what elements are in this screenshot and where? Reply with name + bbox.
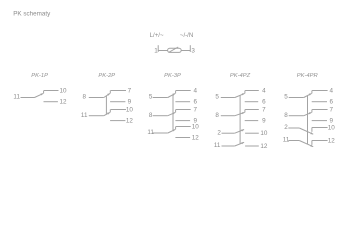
PK-3P pole 2 movable contact arm: [168, 112, 176, 115]
PK-4PZ pole 2 movable contact arm: [235, 112, 245, 115]
PK-4PZ pole 4 fixed contact wire (pin 12): [245, 145, 259, 147]
relay contact diagram PK-4PR: [283, 73, 336, 147]
svg-text:5: 5: [215, 94, 219, 101]
PK-4PZ pole 2 common wire (pin 8): [221, 115, 235, 117]
PK-3P pole 1 contact tick: [175, 91, 177, 94]
PK-3P pole 1 movable contact arm: [168, 93, 176, 97]
PK-2P mechanical link: [105, 96, 107, 115]
coil terminal tick pin 1: [157, 45, 159, 52]
coil section: [150, 32, 196, 54]
PK-1P pole 1 lower contact wire (pin 12): [44, 101, 58, 103]
PK-4PZ pole 2 contact tick: [244, 110, 246, 113]
svg-text:12: 12: [192, 134, 200, 141]
PK-3P mechanical link: [172, 95, 174, 131]
PK-4PR pole 3 movable contact arm (NC): [299, 128, 313, 134]
PK-3P pole 2 upper contact wire (pin 7): [176, 109, 191, 111]
svg-text:3: 3: [191, 47, 195, 54]
svg-text:5: 5: [284, 94, 288, 101]
PK-4PR mechanical link: [307, 96, 309, 145]
PK-4PR pole 3 contact tick: [311, 128, 313, 132]
PK-4PR pole 2 contact tick: [311, 110, 313, 113]
svg-text:8: 8: [284, 112, 288, 119]
coil terminal tick pin 3: [189, 45, 191, 52]
svg-text:10: 10: [192, 123, 200, 130]
PK-4PZ pole 3 fixed contact wire (pin 10): [245, 132, 259, 134]
svg-text:7: 7: [330, 106, 334, 113]
PK-4PZ mechanical link: [239, 95, 241, 144]
svg-text:10: 10: [328, 124, 336, 131]
PK-4PZ pole 3 common wire (pin 2): [222, 132, 235, 134]
svg-text:10: 10: [126, 106, 134, 113]
svg-text:4: 4: [262, 87, 266, 94]
PK-4PZ pole 4 movable contact arm (NO): [235, 142, 244, 146]
svg-text:L/+/~: L/+/~: [150, 32, 164, 39]
PK-4PR pole 4 fixed contact wire (pin 12): [312, 140, 328, 142]
PK-3P pole 3 common wire (pin 11): [153, 132, 168, 134]
svg-text:12: 12: [59, 99, 67, 106]
PK-4PR pole 4 common wire (pin 11): [288, 140, 299, 142]
PK-3P pole 1 common wire (pin 5): [153, 97, 168, 99]
svg-text:2: 2: [284, 124, 288, 131]
PK-2P pole 1 upper contact wire (pin 7): [111, 90, 127, 92]
svg-text:PK-1P: PK-1P: [31, 73, 48, 79]
coil body (oval with diagonal): [168, 48, 182, 52]
svg-text:9: 9: [262, 117, 266, 124]
svg-text:7: 7: [194, 106, 198, 113]
PK-2P pole 1 contact tick: [109, 91, 111, 94]
PK-4PR pole 1 movable contact arm: [304, 93, 312, 97]
PK-4PR pole 2 common wire (pin 8): [289, 115, 304, 117]
PK-4PR pole 1 lower contact wire (pin 6): [312, 101, 327, 103]
svg-text:4: 4: [194, 87, 198, 94]
svg-text:6: 6: [330, 99, 334, 106]
PK-4PR pole 1 common wire (pin 5): [289, 97, 304, 99]
svg-text:4: 4: [330, 87, 334, 94]
PK-2P pole 2 movable contact arm: [104, 112, 110, 115]
PK-2P pole 1 lower contact wire (pin 9): [110, 101, 125, 103]
PK-1P pole 1 common wire (pin 11): [21, 97, 35, 99]
PK-4PZ pole 1 movable contact arm: [235, 93, 245, 97]
PK-3P pole 2 lower contact wire (pin 9): [175, 120, 190, 122]
PK-2P pole 2 common wire (pin 11): [89, 115, 104, 117]
PK-3P pole 3 contact tick: [175, 127, 177, 130]
PK-4PR pole 2 lower contact wire (pin 9): [312, 120, 327, 122]
svg-text:1: 1: [154, 47, 158, 54]
PK-3P pole 2 common wire (pin 8): [153, 115, 168, 117]
coil wire right: [181, 50, 190, 52]
PK-3P pole 3 lower contact wire (pin 12): [175, 137, 190, 139]
PK-4PZ pole 3 movable contact arm (NO): [235, 130, 244, 134]
relay contact diagram PK-4PZ: [214, 73, 268, 150]
PK-3P pole 3 upper contact wire (pin 10): [176, 126, 191, 128]
svg-text:11: 11: [13, 94, 20, 101]
PK-4PZ pole 2 lower contact wire (pin 9): [245, 120, 259, 122]
PK-4PR pole 2 movable contact arm: [304, 112, 312, 115]
PK-4PR pole 1 upper contact wire (pin 4): [312, 90, 328, 92]
PK-4PZ pole 2 upper contact wire (pin 7): [245, 109, 259, 111]
svg-text:2: 2: [217, 129, 221, 136]
svg-text:6: 6: [262, 99, 266, 106]
PK-3P pole 2 contact tick: [175, 110, 177, 113]
svg-text:7: 7: [128, 87, 132, 94]
svg-text:8: 8: [215, 112, 219, 119]
svg-text:9: 9: [128, 99, 132, 106]
svg-text:10: 10: [260, 130, 268, 137]
PK-4PZ pole 1 contact tick: [244, 91, 246, 94]
PK-4PR pole 4 movable contact arm (NC): [299, 141, 313, 147]
PK-3P pole 1 lower contact wire (pin 6): [175, 101, 190, 103]
PK-2P pole 2 upper contact wire (pin 10): [111, 109, 127, 111]
svg-text:12: 12: [328, 137, 336, 144]
PK-2P pole 2 contact tick: [109, 110, 111, 113]
svg-text:12: 12: [126, 117, 134, 124]
PK-4PZ pole 1 common wire (pin 5): [221, 97, 235, 99]
PK-4PZ pole 1 upper contact wire (pin 4): [245, 90, 259, 92]
svg-text:PK-4PR: PK-4PR: [297, 73, 319, 79]
svg-text:PK-2P: PK-2P: [98, 73, 115, 79]
PK-3P pole 1 upper contact wire (pin 4): [176, 90, 191, 92]
svg-text:6: 6: [194, 99, 198, 106]
svg-text:12: 12: [260, 143, 268, 150]
PK-4PZ pole 1 lower contact wire (pin 6): [245, 101, 259, 103]
svg-text:PK schematy: PK schematy: [13, 10, 51, 17]
PK-4PZ pole 4 common wire (pin 11): [222, 145, 235, 147]
PK-3P pole 3 movable contact arm: [168, 129, 176, 133]
PK-2P pole 1 common wire (pin 8): [89, 97, 104, 99]
PK-2P pole 1 movable contact arm: [104, 93, 110, 97]
PK-4PR pole 3 fixed contact wire (pin 10): [312, 127, 328, 129]
svg-text:8: 8: [82, 94, 86, 101]
svg-text:PK-3P: PK-3P: [164, 73, 181, 79]
PK-4PR pole 1 contact tick: [311, 91, 313, 94]
PK-1P pole 1 contact tick: [43, 91, 45, 94]
svg-text:PK-4PZ: PK-4PZ: [230, 73, 251, 79]
svg-text:~/-/N: ~/-/N: [180, 32, 193, 39]
PK-1P pole 1 movable contact arm: [35, 93, 44, 97]
PK-4PR pole 3 common wire (pin 2): [288, 127, 299, 129]
svg-text:7: 7: [262, 106, 266, 113]
svg-text:11: 11: [81, 112, 88, 119]
PK-4PR pole 4 contact tick: [311, 141, 313, 145]
relay contact diagram PK-3P: [147, 73, 199, 142]
svg-text:10: 10: [59, 87, 67, 94]
svg-text:5: 5: [149, 94, 153, 101]
relay contact diagram PK-1P: [13, 73, 67, 106]
PK-4PR pole 2 upper contact wire (pin 7): [312, 109, 328, 111]
svg-text:8: 8: [149, 112, 153, 119]
PK-1P pole 1 upper contact wire (pin 10): [44, 90, 59, 92]
coil wire left: [158, 50, 168, 52]
PK-2P pole 2 lower contact wire (pin 12): [110, 120, 125, 122]
coil body diagonal stroke: [169, 47, 179, 52]
svg-text:11: 11: [214, 142, 221, 149]
relay contact diagram PK-2P: [81, 73, 133, 125]
